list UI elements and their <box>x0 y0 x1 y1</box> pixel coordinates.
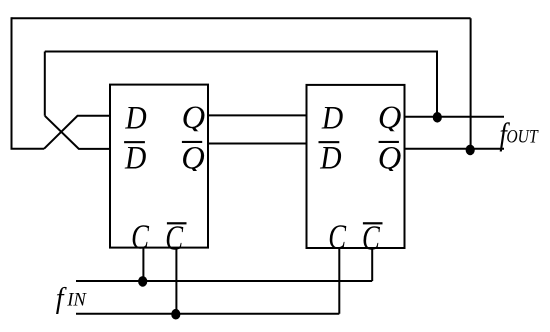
wire Q2 output <box>405 116 505 118</box>
wire outer feedback top horizontal <box>12 17 471 19</box>
wire fin bottom rail <box>76 313 339 315</box>
pin label D1bar <box>124 139 146 176</box>
wire inner feedback top horizontal <box>45 51 437 53</box>
svg-text:IN: IN <box>66 290 87 311</box>
pin label C2 <box>328 219 346 257</box>
pin label D1 <box>124 99 146 136</box>
wire outer feedback right vertical <box>470 18 472 148</box>
overline C1bar <box>167 222 187 224</box>
svg-text:D: D <box>319 139 341 176</box>
pin label D2bar <box>319 139 341 176</box>
overline Q2bar <box>379 141 399 143</box>
overline C2bar <box>363 222 383 224</box>
svg-text:D: D <box>321 99 343 136</box>
pin label C1 <box>131 219 149 257</box>
wire C1bar vertical <box>175 248 177 314</box>
svg-text:C: C <box>328 219 346 257</box>
svg-text:OUT: OUT <box>506 126 539 147</box>
wire crossover diagonal down to D1bar <box>45 116 110 149</box>
svg-text:C: C <box>131 219 149 257</box>
wire Q1 to D2 <box>208 114 307 116</box>
flip-flop U2 box <box>307 85 405 248</box>
junction dot Q2/fout <box>433 112 442 123</box>
flip-flop U1 box <box>110 85 208 248</box>
pin label Q2 <box>378 100 402 136</box>
junction dot Q2bar/fout <box>466 145 475 156</box>
pin label Q2bar <box>378 140 402 176</box>
svg-text:D: D <box>124 139 146 176</box>
svg-text:Q: Q <box>378 100 402 136</box>
wire crossover diagonal up to D1 <box>44 116 110 149</box>
pin label Q1 <box>182 100 206 136</box>
pin label C1bar <box>165 219 183 257</box>
svg-text:D: D <box>124 99 146 136</box>
pin label C2bar <box>362 219 380 257</box>
svg-text:C: C <box>362 219 380 257</box>
wire Q2bar output <box>405 148 505 150</box>
label fOUT <box>499 118 510 153</box>
pin label Q1bar <box>181 140 205 176</box>
svg-text:Q: Q <box>182 100 206 136</box>
label fIN <box>56 281 68 314</box>
overline Q1bar <box>182 141 202 143</box>
wire outer feedback bottom segment to crossover <box>11 148 45 150</box>
wire C2 vertical <box>338 248 340 314</box>
overline D2bar <box>319 141 340 143</box>
wire C2bar vertical <box>371 248 373 281</box>
junction dot C1bar/fin <box>171 309 180 320</box>
wire fin top rail <box>76 280 372 282</box>
wire outer feedback left vertical <box>11 17 13 149</box>
pin label D2 <box>321 99 343 136</box>
wire C1 vertical <box>142 248 144 281</box>
wire inner feedback left vertical <box>44 52 46 116</box>
svg-text:C: C <box>165 219 183 257</box>
wire inner feedback right vertical <box>436 51 438 117</box>
wire Q1bar to D2bar <box>208 143 307 145</box>
overline D1bar <box>124 141 145 143</box>
junction dot C1/fin <box>138 276 147 287</box>
